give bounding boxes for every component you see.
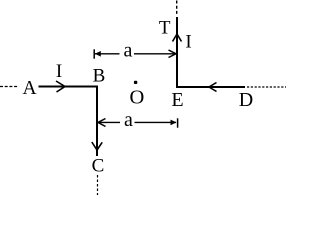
top dimension open arrowhead (points right at wire E-T) xyxy=(169,50,177,58)
dashed continuation above T xyxy=(176,1,178,17)
bottom dimension open arrowhead (points left at wire B-C) xyxy=(98,119,106,127)
svg-text:I: I xyxy=(56,61,62,82)
wire segment A-B xyxy=(39,86,98,88)
dashed lead-in left of A xyxy=(0,86,19,88)
svg-text:a: a xyxy=(124,109,133,131)
svg-text:a: a xyxy=(124,40,133,62)
svg-text:E: E xyxy=(171,89,183,111)
svg-text:A: A xyxy=(22,78,36,99)
wire segment B-C xyxy=(96,86,98,157)
center point dot xyxy=(134,81,137,84)
top dimension tick (left end) xyxy=(93,49,95,58)
wire segment D-E xyxy=(176,86,245,88)
bottom dimension filled arrowhead (points right) xyxy=(171,120,177,126)
svg-text:D: D xyxy=(239,89,253,111)
top dimension filled arrowhead (points left) xyxy=(95,51,101,57)
top dimension line left segment xyxy=(95,53,120,55)
top dimension line right segment xyxy=(134,53,176,55)
current arrow on wire D-E xyxy=(209,83,217,92)
bottom dimension line left segment xyxy=(98,121,120,123)
svg-text:O: O xyxy=(129,87,144,109)
svg-text:B: B xyxy=(93,66,106,87)
dashed continuation below C xyxy=(97,175,99,195)
current arrow on wire E-T xyxy=(173,34,182,42)
current arrow on wire B-C xyxy=(92,142,102,150)
svg-text:T: T xyxy=(159,17,171,38)
bottom dimension line right segment xyxy=(135,121,177,123)
wire segment E-T xyxy=(176,17,178,88)
bottom dimension tick (right end) xyxy=(177,118,179,127)
dashed continuation right of D xyxy=(247,86,286,88)
current arrow on wire A-B xyxy=(56,81,65,92)
svg-text:C: C xyxy=(92,156,105,177)
svg-text:I: I xyxy=(185,32,191,53)
